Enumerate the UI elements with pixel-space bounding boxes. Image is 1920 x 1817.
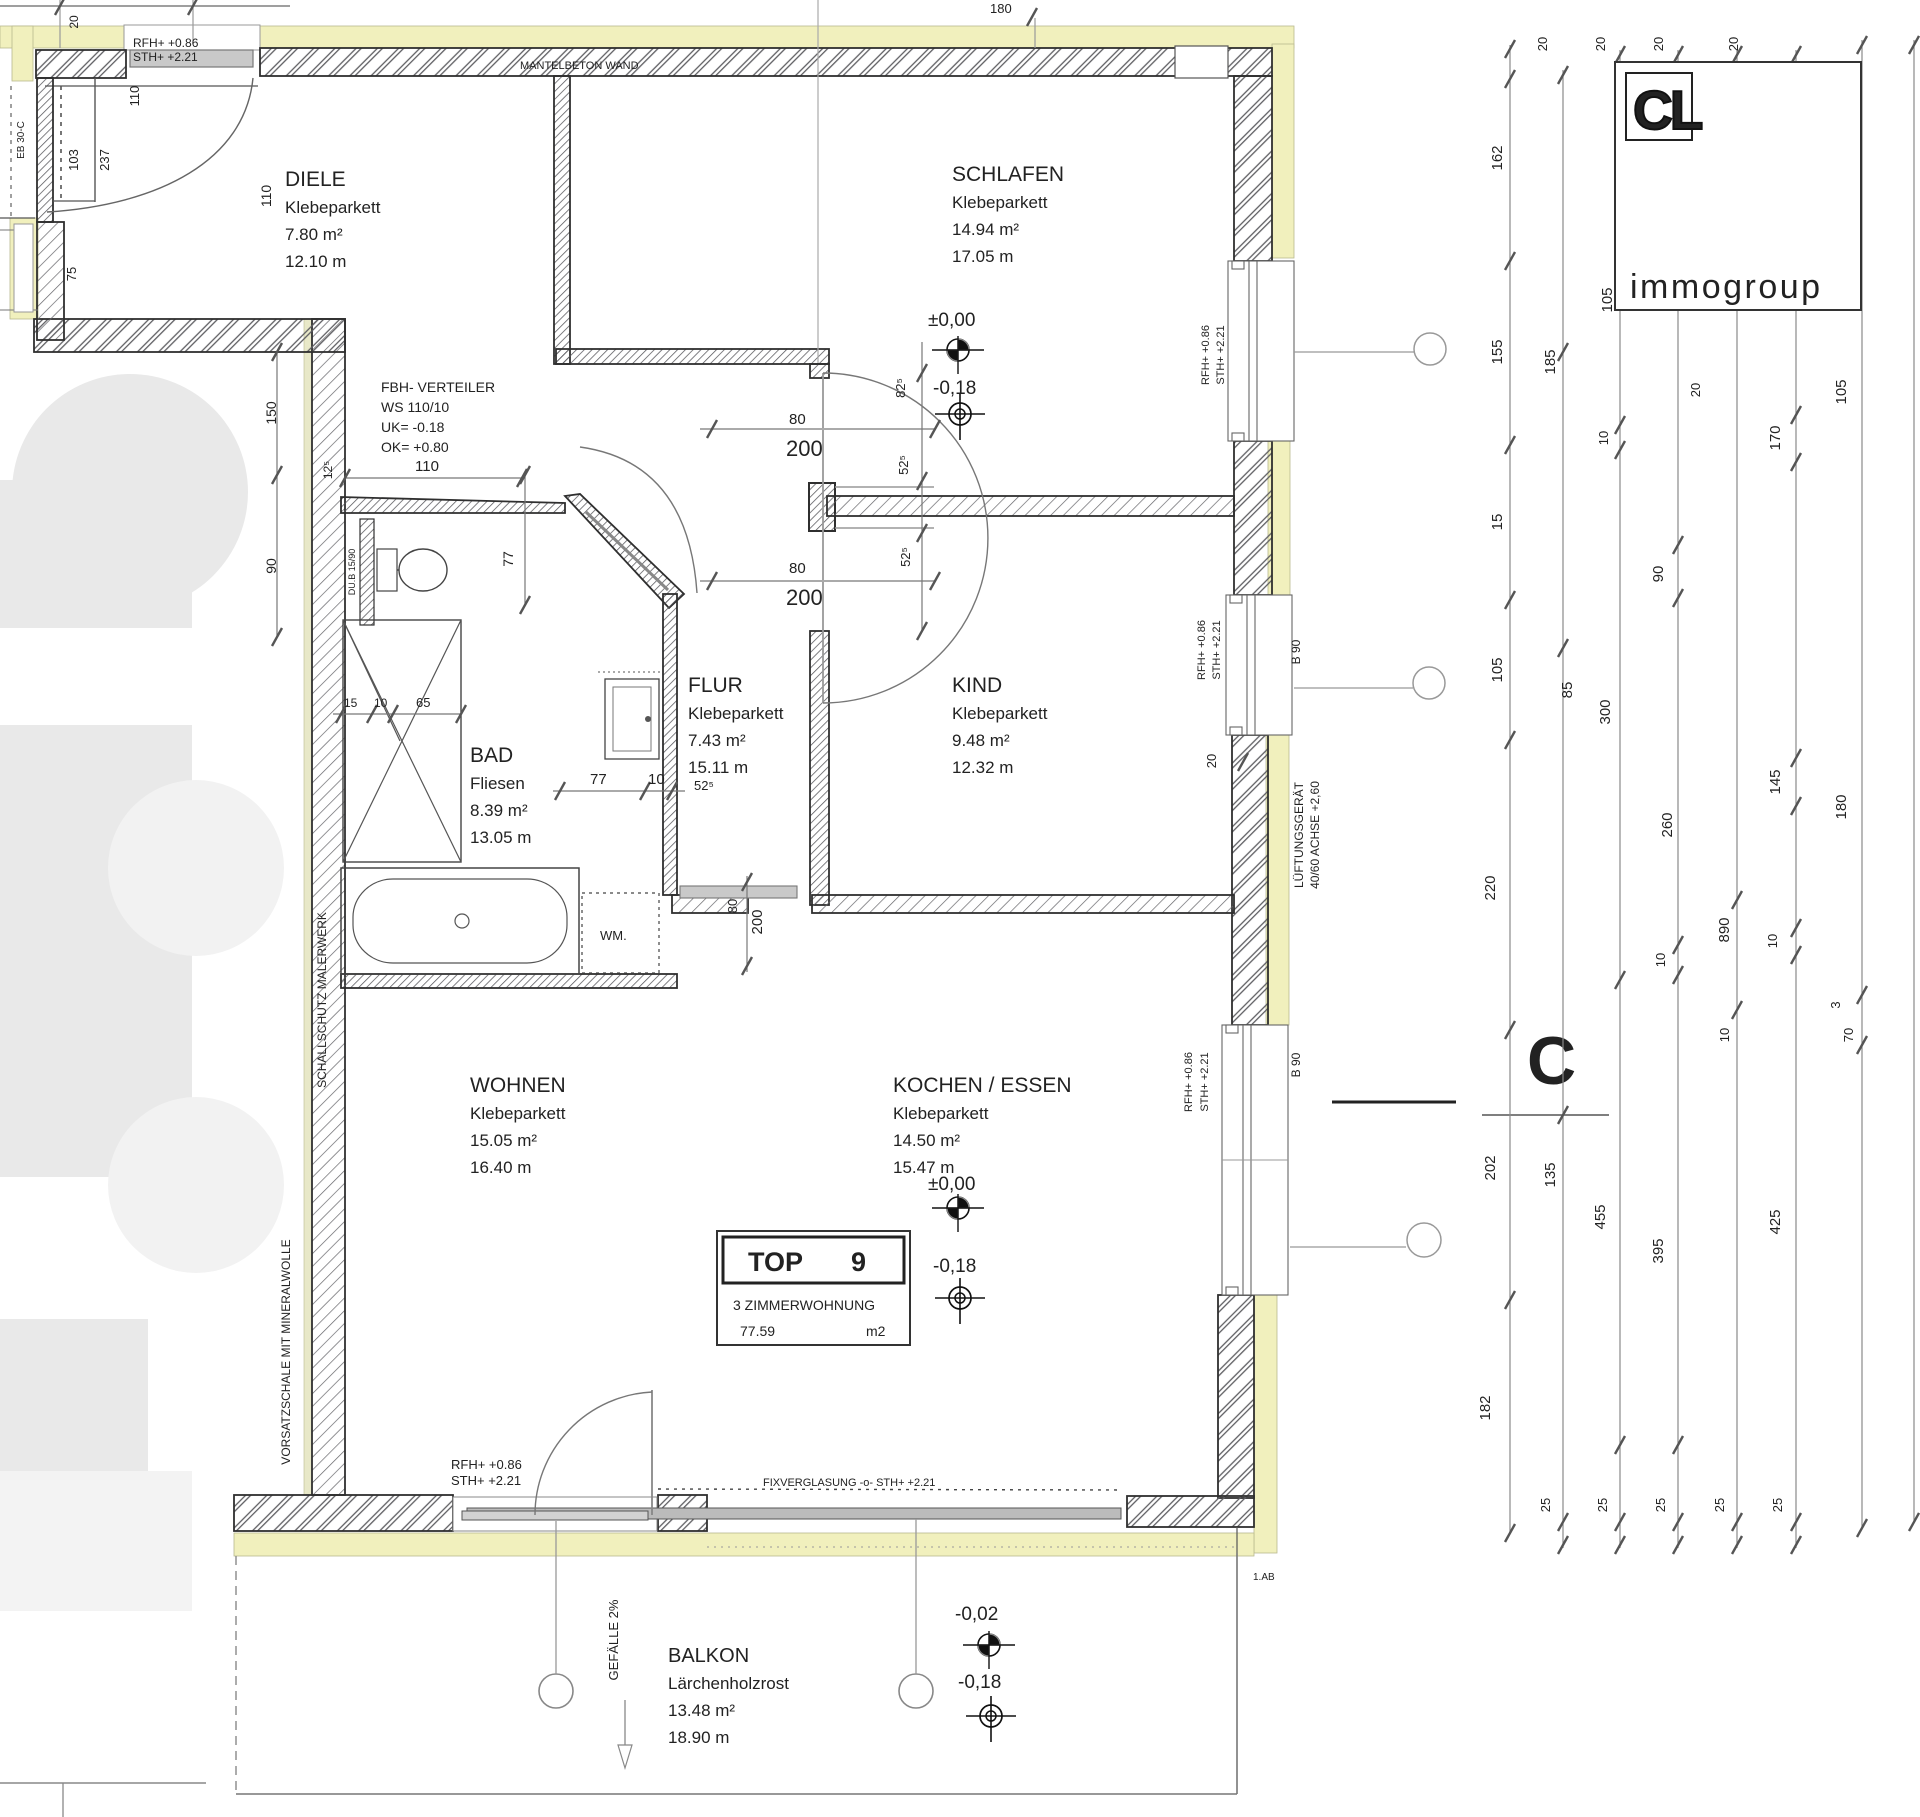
outer wall top main xyxy=(260,48,1272,76)
window W1 circle mark xyxy=(1294,351,1414,353)
bad door leaf diagonal xyxy=(586,512,668,590)
shower dim line xyxy=(333,713,461,715)
wall FLUR-WOHNEN piece xyxy=(672,895,748,913)
svg-text:RFH+ +0.86: RFH+ +0.86 xyxy=(1196,620,1208,680)
svg-text:70: 70 xyxy=(1841,1028,1856,1042)
wall DIELE-SCHLAFEN vertical xyxy=(554,76,570,364)
svg-text:STH+ +2.21: STH+ +2.21 xyxy=(133,50,198,64)
window right W2 xyxy=(1226,595,1292,735)
svg-text:82⁵: 82⁵ xyxy=(893,378,908,398)
svg-text:GEFÄLLE 2%: GEFÄLLE 2% xyxy=(606,1599,621,1680)
svg-text:10: 10 xyxy=(1596,431,1611,445)
svg-text:BAD: BAD xyxy=(470,744,513,767)
axis line x818 xyxy=(817,0,819,363)
svg-text:Klebeparkett: Klebeparkett xyxy=(952,193,1048,212)
svg-text:180: 180 xyxy=(990,1,1012,16)
svg-text:135: 135 xyxy=(1542,1162,1559,1187)
svg-text:FLUR: FLUR xyxy=(688,674,743,697)
outer wall right seg1 xyxy=(1234,76,1272,261)
entrance niche line xyxy=(94,78,96,202)
svg-text:SCHLAFEN: SCHLAFEN xyxy=(952,163,1064,186)
svg-text:16.40 m: 16.40 m xyxy=(470,1158,531,1177)
dimension chain line 2 xyxy=(1538,66,1576,1554)
exterior dim line left xyxy=(276,352,278,637)
svg-text:C: C xyxy=(1527,1023,1576,1099)
svg-text:3: 3 xyxy=(1828,1001,1843,1008)
svg-text:12⁵: 12⁵ xyxy=(321,461,335,479)
bottom right corner wall xyxy=(1127,1496,1254,1527)
svg-text:7.80 m²: 7.80 m² xyxy=(285,225,343,244)
svg-text:80: 80 xyxy=(725,899,740,913)
outer wall right seg2 xyxy=(1234,441,1272,595)
svg-text:200: 200 xyxy=(786,436,823,461)
svg-text:52⁵: 52⁵ xyxy=(694,778,714,793)
thin wall below DIELE-SCHLAFEN xyxy=(556,349,829,364)
svg-text:395: 395 xyxy=(1650,1238,1667,1263)
svg-text:15.11 m: 15.11 m xyxy=(688,758,748,777)
BAD right wall xyxy=(663,594,677,895)
svg-text:Klebeparkett: Klebeparkett xyxy=(893,1104,989,1123)
svg-text:13.05 m: 13.05 m xyxy=(470,828,531,847)
insulation band right third xyxy=(1266,735,1289,1025)
svg-text:m2: m2 xyxy=(866,1323,886,1339)
thin wall end cap xyxy=(810,364,829,378)
insulation band top xyxy=(0,26,1294,48)
svg-text:150: 150 xyxy=(263,401,279,425)
svg-text:80: 80 xyxy=(789,560,806,577)
svg-text:10: 10 xyxy=(648,771,665,788)
elevation balkon xyxy=(963,1631,1015,1669)
DIELE bottom wall xyxy=(34,319,345,352)
svg-text:STH+ +2.21: STH+ +2.21 xyxy=(1199,1052,1211,1111)
svg-text:20: 20 xyxy=(1726,37,1741,51)
outer wall right seg3 xyxy=(1232,735,1268,1025)
svg-text:LÜFTUNGSGERÄT: LÜFTUNGSGERÄT xyxy=(1292,781,1306,888)
svg-text:85: 85 xyxy=(1559,682,1576,699)
wall 20 dim right xyxy=(1238,753,1248,771)
svg-text:77: 77 xyxy=(590,771,607,788)
svg-text:455: 455 xyxy=(1592,1204,1609,1229)
FLUR door bar xyxy=(680,886,797,898)
svg-text:890: 890 xyxy=(1716,917,1733,942)
svg-text:RFH+ +0.86: RFH+ +0.86 xyxy=(1183,1052,1195,1112)
fixverglasung dashed line xyxy=(658,1489,1121,1490)
svg-text:260: 260 xyxy=(1659,812,1676,837)
door dim vertical line xyxy=(921,342,923,631)
svg-text:20: 20 xyxy=(1593,37,1608,51)
svg-text:17.05 m: 17.05 m xyxy=(952,247,1013,266)
svg-text:200: 200 xyxy=(786,585,823,610)
svg-text:DIELE: DIELE xyxy=(285,168,346,191)
wall KIND-KOCHEN xyxy=(812,895,1234,913)
toilet xyxy=(377,549,397,591)
svg-text:immogroup: immogroup xyxy=(1630,268,1823,306)
washing machine WM xyxy=(582,893,659,973)
svg-text:8.39 m²: 8.39 m² xyxy=(470,801,528,820)
insulation band bottom xyxy=(234,1533,1254,1556)
window right W1 xyxy=(1228,261,1294,441)
insulation band right second xyxy=(1268,441,1290,596)
neighbor balcony line bottom left xyxy=(0,1782,206,1784)
svg-text:200: 200 xyxy=(749,909,766,934)
watermark notch white xyxy=(0,628,192,725)
svg-text:WM.: WM. xyxy=(600,928,627,943)
outer wall top left piece xyxy=(36,50,126,78)
svg-text:25: 25 xyxy=(1538,1498,1553,1512)
BAD top wall xyxy=(341,497,565,513)
dimension chain line 7 xyxy=(1828,36,1867,1537)
svg-text:20: 20 xyxy=(67,15,81,29)
balcony door swing arc xyxy=(535,1392,652,1515)
svg-text:80: 80 xyxy=(789,411,806,428)
svg-text:CL: CL xyxy=(1633,79,1702,141)
CL immogroup logo box xyxy=(1615,62,1861,310)
svg-text:75: 75 xyxy=(64,267,79,281)
svg-text:52⁵: 52⁵ xyxy=(898,547,913,567)
svg-text:Fliesen: Fliesen xyxy=(470,774,525,793)
svg-text:EB 30-C: EB 30-C xyxy=(16,121,27,159)
bottom wall left segment xyxy=(234,1495,453,1531)
svg-text:10: 10 xyxy=(1717,1028,1732,1042)
window W3 circle mark xyxy=(1290,1246,1406,1248)
balcony drain circle right xyxy=(899,1674,933,1708)
svg-text:110: 110 xyxy=(127,86,142,107)
svg-text:FIXVERGLASUNG -o- STH+ +2.21: FIXVERGLASUNG -o- STH+ +2.21 xyxy=(763,1477,935,1489)
svg-text:12.10 m: 12.10 m xyxy=(285,252,346,271)
left outer wall xyxy=(312,319,345,1495)
svg-text:15: 15 xyxy=(1489,514,1506,531)
svg-text:77: 77 xyxy=(500,551,516,567)
insulation gap at entrance door xyxy=(124,25,260,50)
insulation band right fourth xyxy=(1254,1295,1277,1553)
BAD bottom wall xyxy=(341,974,677,988)
balcony outline xyxy=(235,1556,237,1794)
entrance closet dashed line xyxy=(60,86,62,202)
entrance niche inner line xyxy=(45,85,258,87)
svg-text:±0,00: ±0,00 xyxy=(928,1174,975,1195)
svg-text:90: 90 xyxy=(1650,566,1667,583)
svg-text:77.59: 77.59 xyxy=(740,1323,775,1339)
insulation left top strip xyxy=(12,26,33,81)
top dim tick 180 xyxy=(1034,18,1036,48)
section C line right xyxy=(1482,1114,1609,1116)
svg-text:20: 20 xyxy=(1651,37,1666,51)
wc dim line 77 xyxy=(524,475,526,605)
svg-text:25: 25 xyxy=(1712,1498,1727,1512)
svg-text:52⁵: 52⁵ xyxy=(896,455,911,475)
svg-text:B 90: B 90 xyxy=(1289,1052,1303,1077)
dim line 110 FBH xyxy=(345,477,522,479)
svg-text:WOHNEN: WOHNEN xyxy=(470,1074,566,1097)
insulation band right xyxy=(1272,44,1294,258)
svg-text:VORSATZSCHALE MIT MINERALWOLLE: VORSATZSCHALE MIT MINERALWOLLE xyxy=(279,1239,293,1464)
window right W3 xyxy=(1222,1025,1288,1295)
svg-text:-0,18: -0,18 xyxy=(933,1256,976,1277)
watermark lobe upper xyxy=(108,780,284,956)
svg-text:7.43 m²: 7.43 m² xyxy=(688,731,746,750)
vanity basin xyxy=(605,679,659,759)
elevation schlafen xyxy=(932,336,984,374)
top edge dim line xyxy=(0,5,290,7)
svg-text:FBH- VERTEILER: FBH- VERTEILER xyxy=(381,379,495,395)
svg-text:KOCHEN / ESSEN: KOCHEN / ESSEN xyxy=(893,1074,1072,1097)
svg-text:Klebeparkett: Klebeparkett xyxy=(470,1104,566,1123)
section C line left xyxy=(1332,1101,1456,1104)
svg-text:105: 105 xyxy=(1489,657,1506,682)
svg-text:RFH+ +0.86: RFH+ +0.86 xyxy=(1200,325,1212,385)
watermark column xyxy=(0,480,192,1177)
svg-text:15: 15 xyxy=(344,696,358,710)
balcony door bar xyxy=(462,1511,648,1520)
svg-text:162: 162 xyxy=(1489,145,1506,170)
svg-text:OK= +0.80: OK= +0.80 xyxy=(381,439,449,455)
svg-text:10: 10 xyxy=(374,696,388,710)
svg-text:UK= -0.18: UK= -0.18 xyxy=(381,419,445,435)
svg-text:25: 25 xyxy=(1770,1498,1785,1512)
svg-text:105: 105 xyxy=(1599,287,1616,312)
svg-text:9.48 m²: 9.48 m² xyxy=(952,731,1010,750)
glazing band bottom xyxy=(467,1508,1121,1519)
door stub pier xyxy=(809,483,835,531)
svg-text:10: 10 xyxy=(1653,953,1668,967)
svg-text:40/60 ACHSE +2,60: 40/60 ACHSE +2,60 xyxy=(1308,781,1322,889)
wall SCHLAFEN-KIND xyxy=(827,496,1234,516)
svg-text:Klebeparkett: Klebeparkett xyxy=(285,198,381,217)
svg-text:3 ZIMMERWOHNUNG: 3 ZIMMERWOHNUNG xyxy=(733,1297,875,1313)
svg-text:170: 170 xyxy=(1767,425,1784,450)
extension line x193 xyxy=(192,0,194,44)
wall FLUR-KIND vertical xyxy=(810,631,829,905)
top wall joint white xyxy=(1175,46,1228,78)
svg-text:237: 237 xyxy=(97,149,112,171)
flur door dim vline xyxy=(746,876,748,972)
svg-text:110: 110 xyxy=(258,185,274,208)
neighbor wall white core xyxy=(14,224,33,312)
svg-text:180: 180 xyxy=(1833,794,1850,819)
balcony drain circle left xyxy=(539,1674,573,1708)
schlafen door dim line upper xyxy=(700,428,935,430)
dim line 77 10 xyxy=(553,790,685,792)
shower tray xyxy=(343,620,461,862)
svg-text:20: 20 xyxy=(1204,754,1219,768)
svg-text:KIND: KIND xyxy=(952,674,1002,697)
balcony door threshold xyxy=(453,1497,657,1531)
neighbor dashed line left xyxy=(10,86,12,218)
svg-text:MANTELBETON WAND: MANTELBETON WAND xyxy=(520,60,639,72)
elevation kochen xyxy=(932,1194,984,1232)
WC shaft xyxy=(360,519,374,625)
svg-text:25: 25 xyxy=(1653,1498,1668,1512)
svg-text:15.05 m²: 15.05 m² xyxy=(470,1131,537,1150)
svg-text:14.94 m²: 14.94 m² xyxy=(952,220,1019,239)
svg-text:BALKON: BALKON xyxy=(668,1645,749,1667)
BAD diagonal wall xyxy=(565,494,684,608)
svg-text:12.32 m: 12.32 m xyxy=(952,758,1013,777)
svg-text:425: 425 xyxy=(1767,1209,1784,1234)
svg-text:10: 10 xyxy=(1765,934,1780,948)
dimension chain line 1 xyxy=(1477,40,1515,1542)
svg-text:105: 105 xyxy=(1833,379,1850,404)
svg-text:90: 90 xyxy=(263,558,279,574)
svg-text:65: 65 xyxy=(416,695,430,710)
svg-text:300: 300 xyxy=(1597,699,1614,724)
watermark block lower xyxy=(0,1319,148,1471)
svg-text:202: 202 xyxy=(1482,1155,1499,1180)
window W2 circle mark xyxy=(1294,687,1413,689)
svg-text:B 90: B 90 xyxy=(1289,639,1303,664)
svg-text:13.48 m²: 13.48 m² xyxy=(668,1701,735,1720)
svg-text:14.50 m²: 14.50 m² xyxy=(893,1131,960,1150)
svg-text:-0,18: -0,18 xyxy=(958,1672,1001,1693)
watermark lobe lower xyxy=(108,1097,284,1273)
dimension chain line 8 xyxy=(1909,36,1919,1531)
svg-text:103: 103 xyxy=(66,149,81,171)
svg-text:STH+ +2.21: STH+ +2.21 xyxy=(451,1473,521,1488)
svg-text:Klebeparkett: Klebeparkett xyxy=(688,704,784,723)
entrance left wall upper xyxy=(37,78,53,222)
svg-text:Lärchenholzrost: Lärchenholzrost xyxy=(668,1674,789,1693)
svg-text:20: 20 xyxy=(1535,37,1550,51)
bottom wall pier xyxy=(658,1495,707,1531)
svg-text:185: 185 xyxy=(1542,349,1559,374)
svg-text:110: 110 xyxy=(415,458,439,475)
svg-text:Klebeparkett: Klebeparkett xyxy=(952,704,1048,723)
outer wall right seg4 lower xyxy=(1218,1295,1254,1498)
dimension chain line 3 xyxy=(1592,46,1625,1554)
svg-text:18.90 m: 18.90 m xyxy=(668,1728,729,1747)
svg-text:9: 9 xyxy=(851,1247,866,1277)
kind door dim line lower xyxy=(700,580,935,582)
balcony corner line LAB xyxy=(1236,1527,1238,1553)
entrance left wall lower xyxy=(37,222,64,340)
svg-text:182: 182 xyxy=(1477,1395,1494,1420)
svg-text:1.AB: 1.AB xyxy=(1253,1572,1275,1583)
svg-text:-0,18: -0,18 xyxy=(933,378,976,399)
svg-text:-0,02: -0,02 xyxy=(955,1604,998,1625)
svg-text:WS 110/10: WS 110/10 xyxy=(381,399,449,415)
svg-text:20: 20 xyxy=(1688,383,1703,397)
extension line x60 xyxy=(59,0,61,48)
dimension chain line 6 xyxy=(1765,46,1801,1554)
bad door swing arc xyxy=(580,447,697,593)
svg-text:TOP: TOP xyxy=(748,1247,803,1277)
svg-text:DU.B 15/90: DU.B 15/90 xyxy=(347,549,357,596)
svg-text:155: 155 xyxy=(1489,339,1506,364)
entrance door bar xyxy=(130,50,253,67)
svg-text:220: 220 xyxy=(1482,875,1499,900)
svg-text:STH+ +2.21: STH+ +2.21 xyxy=(1215,325,1227,384)
door niche lines at stub xyxy=(835,486,934,488)
bathtub xyxy=(341,868,579,974)
svg-text:RFH+ +0.86: RFH+ +0.86 xyxy=(133,36,199,50)
dimension chain line 5 xyxy=(1712,46,1742,1554)
insulation left mid strip xyxy=(10,218,38,319)
svg-text:145: 145 xyxy=(1767,769,1784,794)
watermark disc top xyxy=(12,374,248,610)
neighbor fragment lines xyxy=(0,217,35,219)
svg-text:25: 25 xyxy=(1595,1498,1610,1512)
schlafen door leaf xyxy=(822,373,824,703)
svg-text:STH+ +2.21: STH+ +2.21 xyxy=(1211,620,1223,679)
dimension chain line 4 xyxy=(1650,46,1703,1554)
balcony door leaf xyxy=(651,1390,653,1515)
entrance door swing arc xyxy=(47,78,253,212)
svg-text:RFH+ +0.86: RFH+ +0.86 xyxy=(451,1457,522,1472)
gefaelle arrow xyxy=(624,1700,626,1745)
schlafen door swing arc xyxy=(823,373,988,703)
svg-text:SCHALLSCHUTZ MALERWERK: SCHALLSCHUTZ MALERWERK xyxy=(315,912,329,1088)
svg-text:±0,00: ±0,00 xyxy=(928,310,975,331)
watermark block bottom xyxy=(0,1471,192,1611)
TOP 9 title block xyxy=(717,1231,910,1345)
insulation strip along left wall xyxy=(304,319,312,1495)
